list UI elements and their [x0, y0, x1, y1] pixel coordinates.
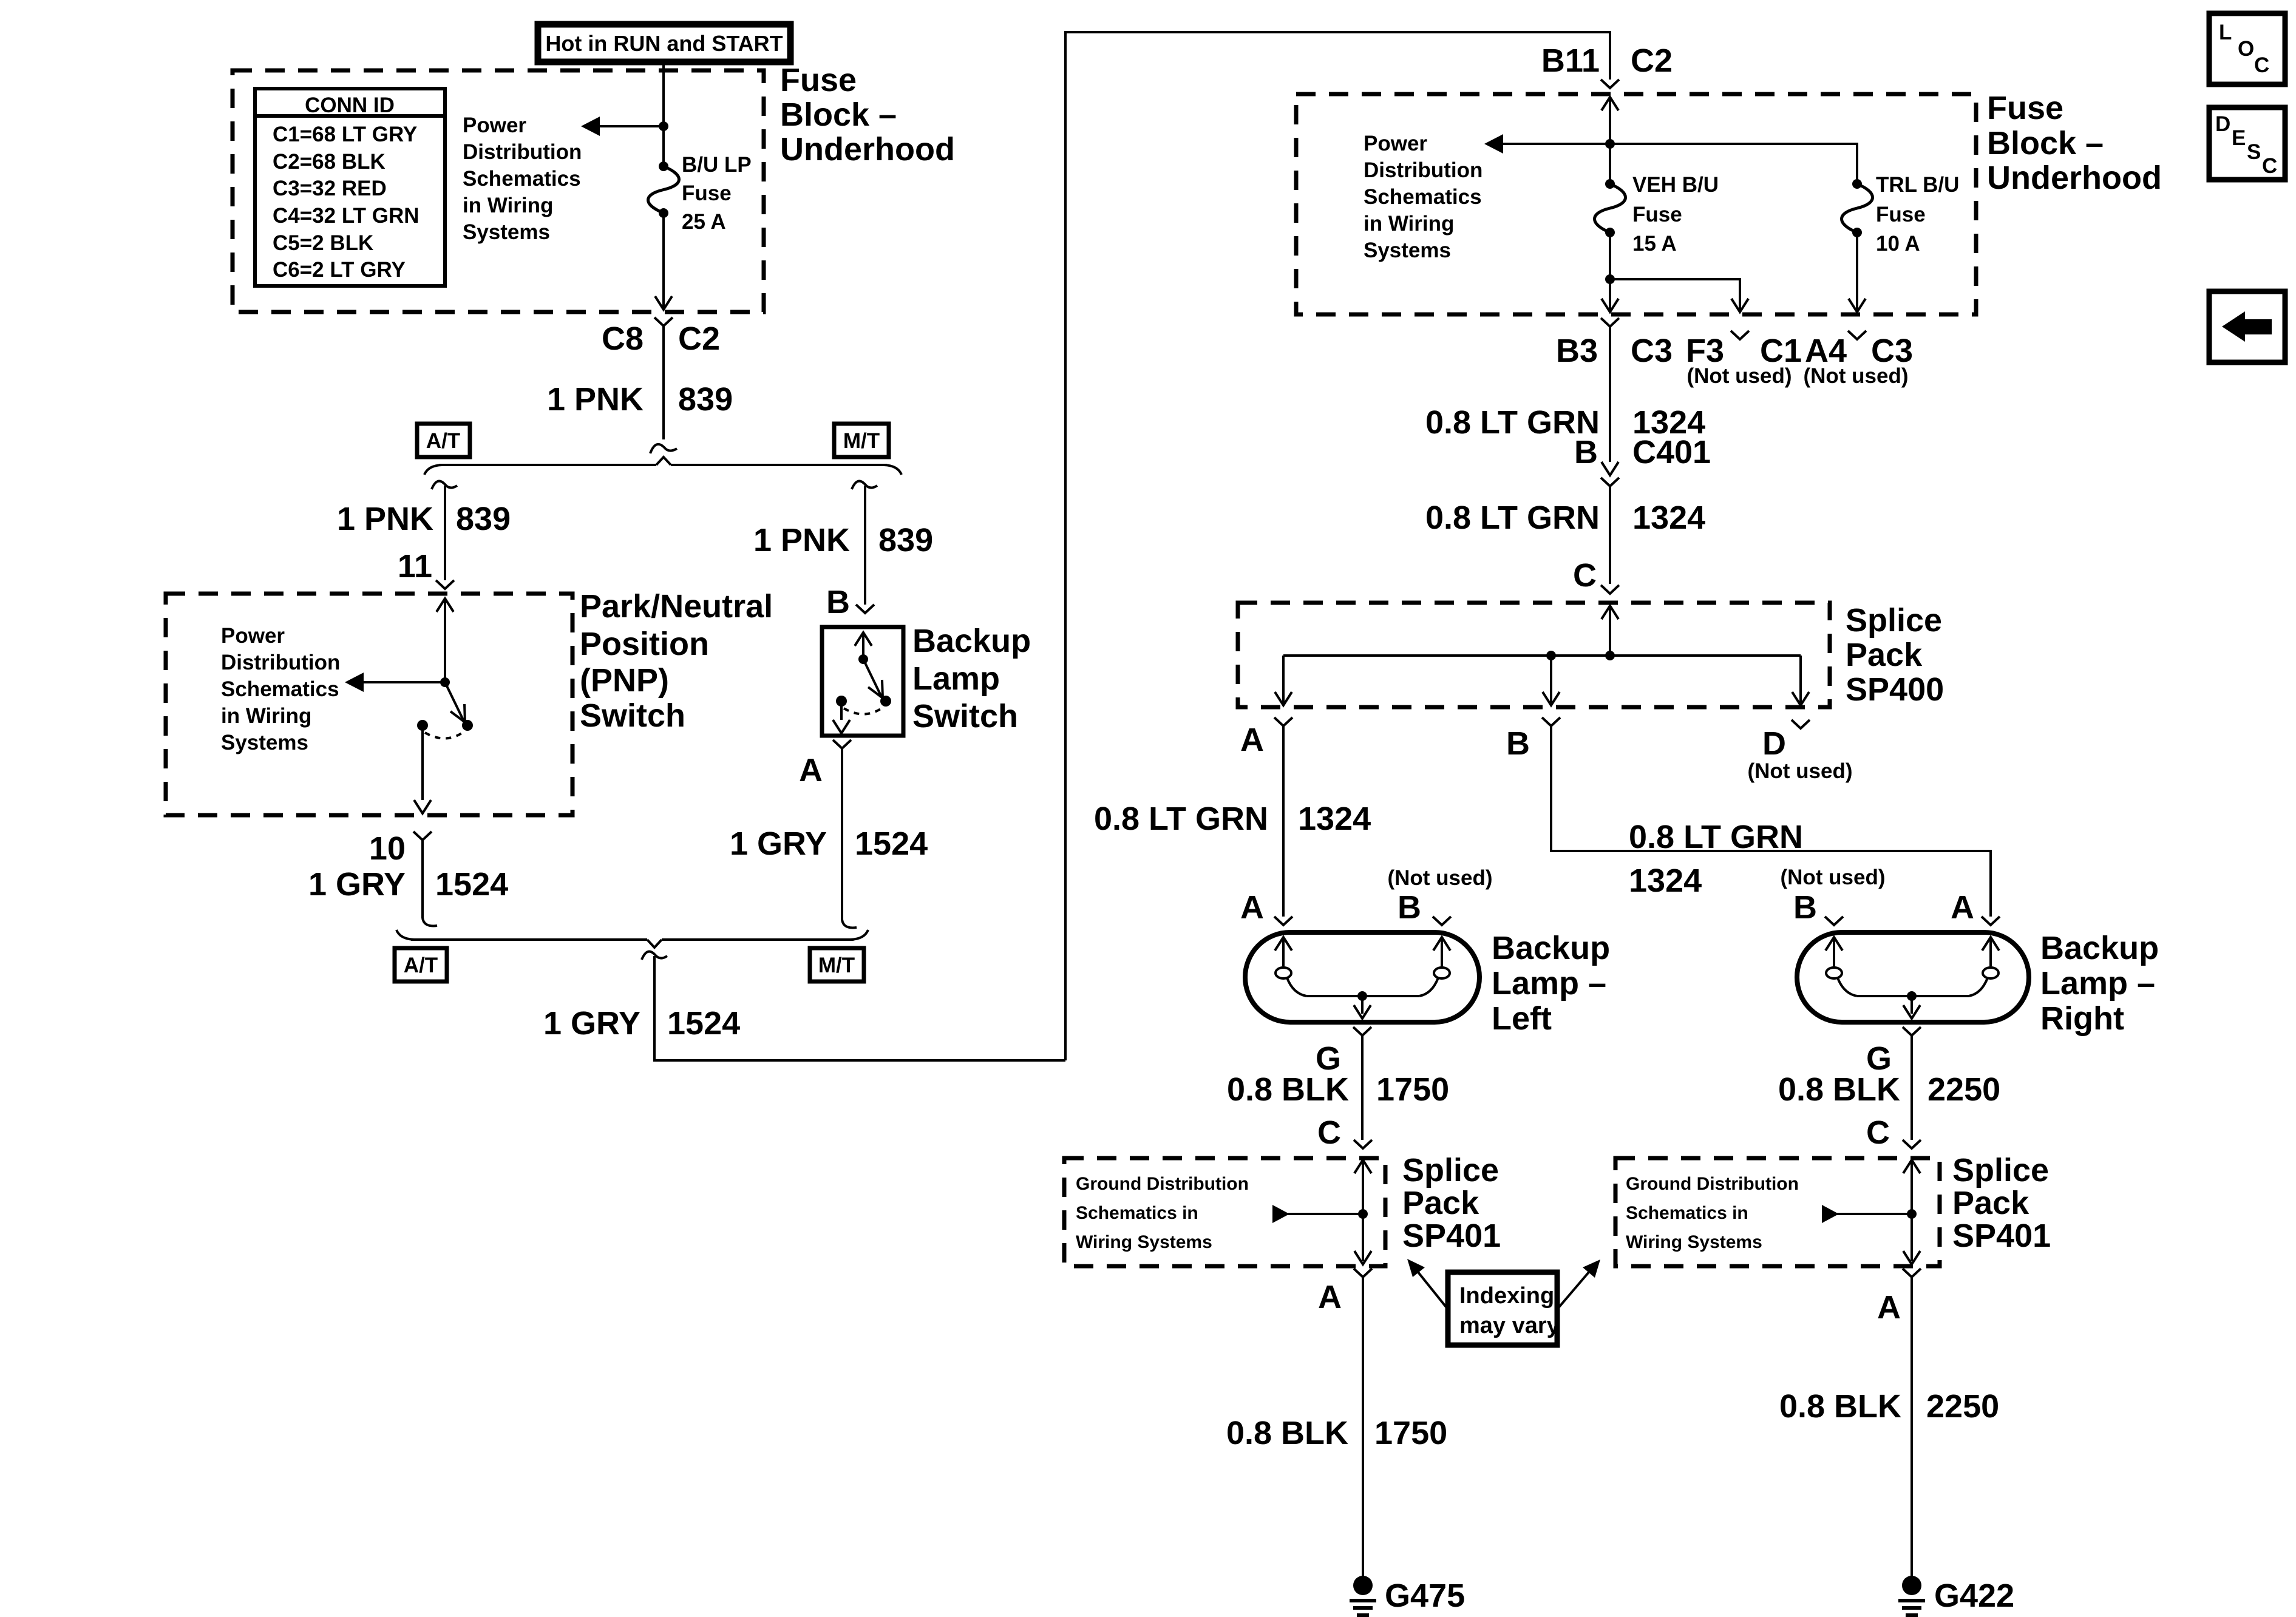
arrow up into SP401 left — [1354, 1160, 1371, 1173]
arrow F3 stub exits block (down) — [1731, 299, 1748, 312]
svg-text:C2=68 BLK: C2=68 BLK — [273, 150, 385, 174]
wire feed over to TRL fuse — [1610, 144, 1857, 184]
svg-text:Distribution: Distribution — [1364, 158, 1483, 182]
wire C401 to splice pack SP400 — [1609, 486, 1611, 584]
note Indexing may vary box — [1448, 1272, 1557, 1345]
node feed junction dot (right block) — [1605, 139, 1615, 149]
arrow TRL output exits block (down) — [1849, 299, 1866, 312]
svg-text:A: A — [799, 752, 823, 788]
svg-text:Distribution: Distribution — [463, 140, 582, 164]
svg-text:Schematics in: Schematics in — [1076, 1203, 1198, 1223]
label 1 GRY 1524 (merged) — [543, 1005, 740, 1042]
connector chevron into SP400 — [1601, 585, 1619, 594]
svg-text:Park/Neutral: Park/Neutral — [580, 588, 773, 625]
wire SP401 left stem lower — [1362, 1214, 1364, 1261]
arrow VEH output exits block (down) — [1601, 299, 1618, 312]
svg-text:A: A — [1240, 722, 1264, 758]
svg-text:0.8 BLK: 0.8 BLK — [1227, 1071, 1349, 1108]
label terminal C (SP400) — [1573, 557, 1597, 594]
svg-text:Systems: Systems — [463, 220, 550, 244]
svg-text:C3=32 RED: C3=32 RED — [273, 177, 387, 200]
wire PNP output down — [421, 730, 424, 800]
label terminal C (SP401 right) — [1866, 1114, 1890, 1151]
svg-text:Schematics in: Schematics in — [1626, 1203, 1748, 1223]
power distribution reference arrow (left) — [581, 117, 600, 136]
svg-text:D: D — [2215, 112, 2230, 136]
svg-text:0.8 LT GRN: 0.8 LT GRN — [1629, 819, 1803, 855]
svg-text:0.8 BLK: 0.8 BLK — [1778, 1071, 1900, 1108]
fuse VEH B/U 15A symbol — [1595, 179, 1626, 237]
wire TRL fuse output — [1856, 232, 1858, 310]
label Power Distribution Schematics in Wiring Systems (right block) — [1364, 132, 1483, 262]
svg-text:B11: B11 — [1541, 42, 1600, 79]
ground G475 symbol — [1350, 1576, 1376, 1615]
svg-text:1 PNK: 1 PNK — [337, 501, 433, 537]
node A/T tag box (top) — [417, 424, 470, 457]
fuse block - underhood (right) dashed box — [1296, 94, 1976, 314]
connector C401 inline (arrow + chevron) — [1601, 462, 1619, 486]
node PNP arm contact dot — [462, 720, 473, 731]
svg-text:G475: G475 — [1385, 1578, 1465, 1614]
label Splice Pack SP401 (right) — [1952, 1152, 2051, 1254]
svg-text:(Not used): (Not used) — [1686, 364, 1792, 388]
label (Not used) A4/C3 — [1803, 364, 1908, 388]
wire SP400 feed stem — [1609, 606, 1611, 656]
connector chevron lamp-left pin G — [1353, 1027, 1371, 1036]
node lamp switch common dot — [858, 654, 868, 664]
svg-text:D: D — [1762, 725, 1786, 762]
node PNP switch common dot — [440, 677, 450, 687]
label 0.8 BLK 2250 (lower) — [1779, 1388, 1999, 1425]
svg-text:(Not used): (Not used) — [1803, 364, 1908, 388]
svg-text:Backup: Backup — [1492, 930, 1610, 966]
transmission merge bracket (bottom) — [396, 930, 868, 947]
svg-text:Block –: Block – — [780, 97, 897, 133]
svg-text:Fuse: Fuse — [1876, 203, 1926, 226]
node A/T tag box (bottom) — [395, 948, 447, 981]
label terminal 11 — [398, 548, 432, 585]
arrow out of fuse block (down) — [655, 296, 672, 310]
svg-text:M/T: M/T — [843, 429, 880, 453]
svg-text:2250: 2250 — [1926, 1388, 1999, 1425]
label Power Distribution Schematics in Wiring Systems (PNP box) — [221, 624, 340, 754]
splice pack SP401 left dashed box — [1064, 1158, 1385, 1266]
svg-text:Systems: Systems — [221, 731, 308, 754]
svg-text:SP400: SP400 — [1846, 671, 1944, 708]
svg-text:Splice: Splice — [1952, 1152, 2049, 1188]
label Park/Neutral Position (PNP) Switch — [580, 588, 773, 734]
svg-text:A: A — [1951, 889, 1974, 926]
label pin G (lamp left) — [1316, 1040, 1341, 1077]
splice pack SP401 right dashed box — [1615, 1158, 1940, 1266]
svg-text:Backup: Backup — [912, 623, 1031, 659]
svg-text:Backup: Backup — [2040, 930, 2159, 966]
label 1 GRY 1524 (M/T branch) — [730, 825, 928, 862]
svg-text:1324: 1324 — [1632, 500, 1705, 536]
svg-text:B/U LP: B/U LP — [682, 153, 752, 177]
icon back-arrow box — [2209, 291, 2285, 362]
wire SP400-B to right lamp — [1551, 726, 1991, 917]
connector chevron lamp-right pin G — [1903, 1027, 1921, 1036]
svg-text:C5=2 BLK: C5=2 BLK — [273, 231, 373, 255]
svg-text:in Wiring: in Wiring — [1364, 212, 1454, 236]
wire merged 1 GRY 1524 run to right fuse block — [654, 32, 1610, 1060]
wire PNP input to common — [444, 598, 446, 682]
backup lamp - left body — [1245, 932, 1479, 1022]
arrow SP400 branch D exit — [1792, 692, 1809, 705]
node junction dot on feed wire — [659, 121, 668, 131]
label terminal 10 — [369, 830, 406, 867]
label 1 GRY 1524 (A/T branch) — [308, 866, 508, 903]
svg-text:0.8 LT GRN: 0.8 LT GRN — [1094, 801, 1268, 837]
connector chevron lamp-right pin B (not used) — [1825, 917, 1843, 925]
connector chevron below lamp switch — [833, 740, 851, 748]
svg-text:L: L — [2219, 21, 2232, 44]
svg-text:Lamp: Lamp — [912, 660, 1000, 697]
label M/T (top) — [843, 429, 880, 453]
label Backup Lamp Switch (M/T) — [912, 623, 1031, 734]
svg-text:C: C — [2262, 154, 2277, 178]
callout arrow to SP401 right — [1557, 1259, 1600, 1309]
wire power distribution branch (right block) — [1503, 143, 1610, 145]
svg-text:Indexing: Indexing — [1459, 1283, 1554, 1309]
svg-text:Power: Power — [221, 624, 285, 648]
label pin A (lamp right) — [1951, 889, 1974, 926]
label Backup Lamp - Left — [1492, 930, 1610, 1037]
svg-text:Schematics: Schematics — [463, 167, 581, 191]
svg-text:1 GRY: 1 GRY — [543, 1005, 640, 1042]
switch throw dashed arc (M/T) — [844, 708, 881, 714]
node M/T tag box (bottom) — [810, 948, 864, 981]
svg-text:1750: 1750 — [1376, 1071, 1449, 1108]
label B3 | C3 F3 | C1 A4 | C3 — [1556, 333, 1913, 369]
connector chevron into PNP switch — [436, 580, 454, 589]
label Backup Lamp - Right — [2040, 930, 2159, 1037]
label M/T (bottom) — [818, 954, 855, 977]
switch throw dashed arc (PNP) — [425, 733, 463, 739]
connector chevron lamp-right pin A — [1982, 917, 2000, 925]
wire M/T branch to merge — [842, 748, 857, 927]
label terminal A (SP401 left) — [1318, 1279, 1342, 1315]
svg-text:SP401: SP401 — [1402, 1218, 1501, 1254]
fuse B/U LP 25A symbol — [648, 161, 679, 218]
ground G422 symbol — [1898, 1576, 1925, 1615]
svg-text:Pack: Pack — [1402, 1185, 1479, 1221]
svg-text:1524: 1524 — [435, 866, 508, 903]
svg-text:Systems: Systems — [1364, 239, 1451, 262]
label pin B (lamp left) — [1398, 889, 1421, 926]
svg-text:1750: 1750 — [1374, 1415, 1447, 1451]
svg-text:C: C — [1573, 557, 1597, 594]
svg-text:Pack: Pack — [1846, 637, 1923, 673]
svg-text:Schematics: Schematics — [221, 677, 339, 701]
svg-text:F3: F3 — [1686, 333, 1724, 369]
svg-text:B: B — [1506, 725, 1530, 762]
svg-text:A: A — [1877, 1289, 1901, 1326]
lamp right ground stem with arrow — [1903, 996, 1920, 1019]
svg-text:B: B — [1574, 434, 1598, 470]
svg-text:1524: 1524 — [667, 1005, 740, 1042]
node VEH output junction dot — [1605, 274, 1615, 284]
connector chevron SP400-D — [1792, 720, 1810, 728]
label Splice Pack SP401 (left) — [1402, 1152, 1501, 1254]
svg-text:C8: C8 — [602, 320, 644, 357]
svg-text:Lamp –: Lamp – — [2040, 965, 2155, 1002]
label 0.8 BLK 1750 (lower) — [1226, 1415, 1447, 1451]
label 0.8 LT GRN (right lamp feed) — [1629, 819, 1803, 855]
svg-text:(Not used): (Not used) — [1747, 759, 1852, 783]
svg-text:10: 10 — [369, 830, 406, 867]
label Splice Pack SP400 — [1846, 602, 1944, 708]
wire SP401 right stem lower — [1911, 1214, 1913, 1261]
svg-text:839: 839 — [678, 381, 733, 418]
label C8 | C2 — [602, 320, 720, 357]
label A/T (bottom) — [404, 954, 438, 977]
wire SP401 left stem upper — [1362, 1160, 1364, 1214]
svg-text:0.8 LT GRN: 0.8 LT GRN — [1425, 500, 1600, 536]
svg-text:VEH B/U: VEH B/U — [1632, 173, 1719, 197]
arrow up into PNP switch — [436, 598, 453, 612]
wire SP401 left to G475 — [1362, 1277, 1364, 1582]
svg-text:B: B — [1398, 889, 1421, 926]
svg-text:Switch: Switch — [580, 697, 685, 734]
svg-text:0.8 BLK: 0.8 BLK — [1779, 1388, 1901, 1425]
node SP400 bus dot B — [1546, 651, 1556, 660]
svg-text:Fuse: Fuse — [1987, 90, 2063, 126]
node PNP output contact dot — [417, 720, 428, 731]
svg-text:Fuse: Fuse — [1632, 203, 1682, 226]
svg-text:A4: A4 — [1805, 333, 1847, 369]
label Power Distribution Schematics in Wiring Systems (left fuse block) — [463, 114, 582, 244]
callout arrow to SP401 left — [1407, 1259, 1448, 1309]
connector B3/C3 chevron — [1601, 318, 1619, 327]
backup lamp switch (M/T) wire squiggle — [852, 481, 877, 489]
svg-text:11: 11 — [398, 548, 432, 585]
wire ground distribution branch (left) — [1288, 1213, 1363, 1215]
connector B11/C2 chevron — [1601, 80, 1619, 88]
svg-text:15 A: 15 A — [1632, 232, 1677, 256]
label CONN ID rows — [273, 123, 419, 282]
label terminal B (SP400) — [1506, 725, 1530, 762]
wire VEH fuse output — [1609, 232, 1611, 310]
arrow up into SP401 right — [1903, 1160, 1920, 1173]
wire feed to VEH fuse — [1609, 97, 1611, 184]
svg-text:Fuse: Fuse — [682, 181, 732, 205]
node M/T tag box (top) — [834, 424, 889, 457]
svg-text:Wiring Systems: Wiring Systems — [1076, 1232, 1212, 1252]
svg-text:Schematics: Schematics — [1364, 185, 1482, 209]
svg-text:B3: B3 — [1556, 333, 1598, 369]
wire M/T branch down to switch — [864, 486, 866, 605]
label pin G (lamp right) — [1866, 1040, 1892, 1077]
label TRL B/U Fuse 10 A — [1876, 173, 1959, 256]
wire from Hot feed into fuse block — [662, 64, 665, 168]
svg-text:1 PNK: 1 PNK — [547, 381, 644, 418]
svg-text:(Not used): (Not used) — [1387, 866, 1492, 890]
node SP401 left dot — [1358, 1209, 1368, 1219]
fuse block - underhood (left) dashed box — [233, 70, 764, 312]
label G475 — [1385, 1578, 1465, 1614]
svg-text:may vary: may vary — [1459, 1313, 1560, 1338]
switch arm M/T (with arrowhead) — [863, 659, 883, 698]
node SP401 right dot — [1907, 1209, 1917, 1219]
label Fuse Block - Underhood (right) — [1987, 90, 2162, 196]
svg-text:A/T: A/T — [426, 429, 460, 453]
label terminal A (lamp switch) — [799, 752, 823, 788]
svg-text:Ground Distribution: Ground Distribution — [1076, 1174, 1249, 1194]
arrow SP400 branch B exit — [1543, 692, 1560, 705]
fuse TRL B/U 10A symbol — [1842, 179, 1873, 237]
label 1 PNK 839 (A/T branch) — [337, 501, 511, 537]
arrow SP400 branch A exit — [1275, 692, 1292, 705]
svg-text:C: C — [1317, 1114, 1341, 1151]
label Fuse Block - Underhood (left) — [780, 62, 955, 168]
label pin A (lamp left) — [1240, 889, 1264, 926]
wire SP400 branch B down — [1550, 656, 1552, 703]
connector C8/C2 chevron — [654, 317, 673, 326]
svg-text:C4=32 LT GRN: C4=32 LT GRN — [273, 204, 419, 228]
svg-text:B: B — [826, 584, 850, 620]
wire SP400-A to left lamp — [1282, 726, 1285, 917]
svg-text:A: A — [1240, 889, 1264, 926]
arrow up into SP400 — [1601, 606, 1618, 619]
icon LOC box — [2209, 13, 2285, 84]
wire SP400 bus — [1283, 654, 1801, 657]
wire SP401 right stem upper — [1911, 1160, 1913, 1214]
wire ground distribution branch (right) — [1837, 1213, 1912, 1215]
label 1 PNK 839 (M/T branch) — [753, 522, 933, 558]
svg-text:(PNP): (PNP) — [580, 662, 669, 699]
label 1324 (right lamp feed) — [1629, 863, 1702, 899]
svg-text:1 PNK: 1 PNK — [753, 522, 850, 558]
wire B3/C3 down to C401 — [1609, 327, 1611, 462]
power distribution reference arrow (PNP) — [345, 673, 364, 692]
arrow SP401 left exit (down) — [1354, 1251, 1371, 1264]
ground distribution reference arrow (left) — [1272, 1205, 1289, 1223]
node M/T arm contact dot — [880, 696, 891, 707]
wire lamp switch stem — [862, 632, 864, 659]
svg-text:E: E — [2232, 126, 2246, 150]
label B | C401 — [1574, 434, 1711, 470]
svg-text:SP401: SP401 — [1952, 1218, 2051, 1254]
svg-text:Block –: Block – — [1987, 125, 2104, 161]
connector chevron into lamp switch — [856, 605, 874, 613]
svg-text:(Not used): (Not used) — [1780, 866, 1885, 889]
svg-text:Switch: Switch — [912, 698, 1018, 734]
svg-text:1324: 1324 — [1629, 863, 1702, 899]
connector chevron below PNP — [413, 832, 432, 840]
connector A4/C3 chevron (not used) — [1848, 331, 1866, 339]
svg-text:O: O — [2238, 37, 2254, 61]
label (Not used) lamp left B — [1387, 866, 1492, 890]
svg-text:A/T: A/T — [404, 954, 438, 977]
wire PNP power distribution branch — [364, 681, 445, 683]
label G422 — [1934, 1578, 2014, 1614]
svg-text:C: C — [1866, 1114, 1890, 1151]
svg-text:Distribution: Distribution — [221, 651, 340, 674]
svg-text:Power: Power — [1364, 132, 1427, 155]
connector chevron SP400-B — [1542, 717, 1560, 726]
svg-text:C2: C2 — [678, 320, 720, 357]
svg-text:0.8 LT GRN: 0.8 LT GRN — [1425, 404, 1600, 441]
label terminal A (SP401 right) — [1877, 1289, 1901, 1326]
label terminal C (SP401 left) — [1317, 1114, 1341, 1151]
label pin B (lamp right) — [1793, 889, 1817, 926]
switch arm PNP (with arrowhead) — [445, 682, 465, 722]
svg-text:CONN ID: CONN ID — [305, 93, 395, 117]
svg-text:C3: C3 — [1871, 333, 1913, 369]
svg-text:Ground Distribution: Ground Distribution — [1626, 1174, 1799, 1194]
svg-text:C1: C1 — [1760, 333, 1802, 369]
node lamp left filament dot — [1357, 991, 1367, 1001]
wire lamp right ground to SP401 — [1911, 1036, 1913, 1140]
wire fuse output to block edge — [662, 213, 665, 308]
connector chevron lamp-left pin B (not used) — [1433, 917, 1451, 925]
svg-text:2250: 2250 — [1927, 1071, 2000, 1108]
label 0.8 LT GRN 1324 (below C401) — [1425, 500, 1705, 536]
svg-text:Underhood: Underhood — [1987, 160, 2162, 196]
label terminal A (SP400) — [1240, 722, 1264, 758]
wire A/T branch to merge — [423, 840, 437, 926]
svg-text:C401: C401 — [1632, 434, 1711, 470]
svg-text:A: A — [1318, 1279, 1342, 1315]
connector chevron lamp-left pin A — [1274, 917, 1292, 925]
transmission split bracket (top) — [424, 457, 902, 475]
label Indexing may vary — [1459, 1283, 1560, 1338]
svg-text:Pack: Pack — [1952, 1185, 2029, 1221]
label CONN ID title — [305, 93, 395, 117]
label B11 | C2 — [1541, 42, 1673, 79]
svg-text:Wiring Systems: Wiring Systems — [1626, 1232, 1762, 1252]
wire SP401 right to G422 — [1911, 1277, 1913, 1582]
arrow out of lamp switch (down) — [833, 720, 850, 733]
lamp right filament — [1826, 937, 1999, 996]
label Ground Distribution Schematics in Wiring Systems (left) — [1076, 1174, 1249, 1252]
svg-text:TRL B/U: TRL B/U — [1876, 173, 1959, 197]
svg-text:G422: G422 — [1934, 1578, 2014, 1614]
node SP400 bus dot feed — [1605, 651, 1615, 660]
wire SP400 branch A down — [1282, 656, 1285, 703]
svg-text:0.8 BLK: 0.8 BLK — [1226, 1415, 1348, 1451]
wire C2 to transmission split — [662, 326, 665, 439]
connector chevron below SP401 left — [1354, 1269, 1372, 1277]
label Ground Distribution Schematics in Wiring Systems (right) — [1626, 1174, 1799, 1252]
splice split squiggle (top center) — [650, 444, 677, 453]
svg-text:Position: Position — [580, 626, 709, 662]
splice pack SP400 dashed box — [1238, 603, 1830, 707]
svg-text:Right: Right — [2040, 1000, 2124, 1037]
table CONN ID box — [255, 89, 445, 286]
svg-text:1324: 1324 — [1298, 801, 1371, 837]
connector chevron into SP401 right — [1903, 1140, 1921, 1148]
svg-text:839: 839 — [456, 501, 511, 537]
connector chevron below SP401 right — [1903, 1269, 1921, 1277]
svg-text:Lamp –: Lamp – — [1492, 965, 1606, 1002]
svg-text:C1=68 LT GRY: C1=68 LT GRY — [273, 123, 417, 146]
label 0.8 BLK 1750 (upper) — [1227, 1071, 1449, 1108]
svg-text:B: B — [1793, 889, 1817, 926]
svg-text:Splice: Splice — [1402, 1152, 1499, 1188]
label B/U LP Fuse 25 A — [682, 153, 752, 234]
svg-text:in Wiring: in Wiring — [463, 194, 553, 217]
svg-text:10 A: 10 A — [1876, 232, 1920, 256]
merged output squiggle — [642, 952, 667, 960]
svg-text:Fuse: Fuse — [780, 62, 857, 98]
svg-text:C6=2 LT GRY: C6=2 LT GRY — [273, 258, 406, 282]
label terminal D (SP400) — [1762, 725, 1786, 762]
svg-text:Power: Power — [463, 114, 526, 137]
backup lamp switch (M/T) box — [822, 627, 903, 736]
